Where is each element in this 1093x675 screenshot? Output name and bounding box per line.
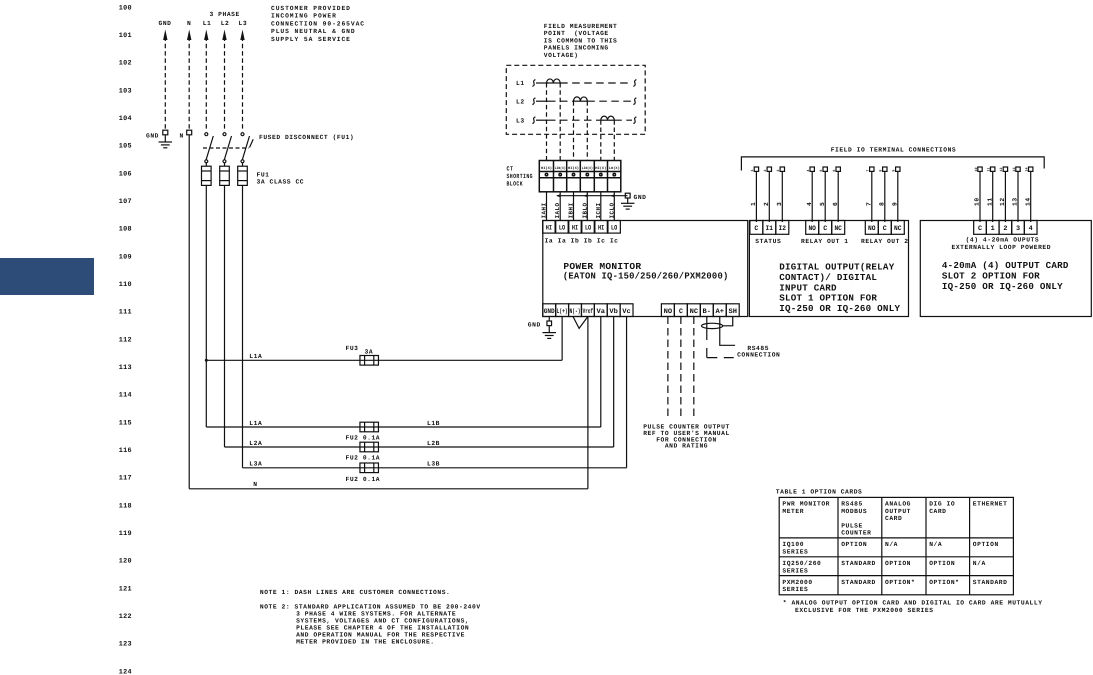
- node GND incoming: [159, 20, 172, 130]
- svg-text:3: 3: [1016, 225, 1020, 233]
- svg-text:5: 5: [819, 169, 824, 171]
- svg-text:I1: I1: [766, 225, 774, 233]
- svg-text:L1A: L1A: [249, 353, 262, 360]
- note customer provided incoming power: [271, 5, 365, 43]
- switch gang linkage (dashed): [203, 139, 253, 148]
- terminal N entry: [180, 130, 192, 139]
- label CT SHORTING BLOCK: [507, 166, 534, 188]
- svg-text:FU1: FU1: [257, 171, 270, 178]
- svg-text:3 PHASE 4 WIRE SYSTEMS. FOR AL: 3 PHASE 4 WIRE SYSTEMS. FOR ALTERNATE: [296, 611, 456, 618]
- terminal GND (CT common): [625, 193, 646, 203]
- svg-text:FUSED DISCONNECT (FU1): FUSED DISCONNECT (FU1): [259, 134, 354, 141]
- svg-text:110: 110: [119, 281, 132, 289]
- svg-text:L2A: L2A: [249, 440, 262, 447]
- svg-text:A+: A+: [716, 308, 725, 316]
- svg-text:SLOT 2 OPTION FOR: SLOT 2 OPTION FOR: [942, 271, 1040, 282]
- svg-text:OPTION: OPTION: [929, 560, 955, 567]
- wire L1 vertical run: [205, 185, 207, 427]
- svg-text:3A: 3A: [365, 348, 374, 355]
- RS485 twisted pair B- A+ stubs: [707, 317, 720, 330]
- svg-text:STATUS: STATUS: [755, 238, 781, 245]
- fuse FU1 pole C: [238, 166, 248, 185]
- note field measurement point: [544, 23, 618, 59]
- svg-text:L2: L2: [516, 98, 525, 105]
- svg-text:FU2 0.1A: FU2 0.1A: [346, 455, 381, 462]
- svg-text:TABLE 1 OPTION CARDS: TABLE 1 OPTION CARDS: [776, 488, 863, 495]
- svg-text:N/A: N/A: [973, 560, 986, 567]
- svg-text:119: 119: [119, 530, 132, 538]
- field IO terminals 1-14 with wires: [750, 167, 759, 222]
- svg-text:C: C: [754, 225, 758, 233]
- svg-text:3 PHASE: 3 PHASE: [210, 11, 240, 18]
- svg-text:3: 3: [776, 202, 783, 206]
- svg-text:FIELD MEASUREMENT: FIELD MEASUREMENT: [544, 23, 618, 30]
- node L3 incoming: [239, 20, 248, 131]
- svg-text:PANELS INCOMING: PANELS INCOMING: [544, 45, 609, 52]
- svg-text:ANALOG: ANALOG: [885, 501, 911, 508]
- svg-text:CT: CT: [507, 166, 514, 173]
- svg-text:FU2 0.1A: FU2 0.1A: [346, 435, 381, 442]
- 4-20mA terminals C 1 2 3 4: [974, 221, 1037, 235]
- svg-text:HI: HI: [546, 224, 552, 232]
- svg-text:104: 104: [119, 115, 132, 123]
- svg-text:EXTERNALLY LOOP POWERED: EXTERNALLY LOOP POWERED: [952, 244, 1052, 251]
- svg-text:122: 122: [119, 613, 132, 621]
- phase L2 primary conductor with CT: [516, 97, 636, 106]
- table footnote: [783, 600, 1043, 614]
- svg-text:SHORTING: SHORTING: [507, 173, 534, 180]
- svg-text:ICLO: ICLO: [608, 203, 615, 219]
- status input terminals C I1 I2: [750, 221, 789, 245]
- svg-text:BLOCK: BLOCK: [507, 180, 524, 187]
- svg-text:Ia: Ia: [545, 238, 554, 245]
- meter CT input terminals HI LO x3: [543, 221, 621, 234]
- svg-text:IQ-250 OR IQ-260 ONLY: IQ-250 OR IQ-260 ONLY: [942, 281, 1063, 292]
- svg-text:Vref: Vref: [583, 307, 594, 316]
- svg-text:10: 10: [974, 197, 981, 206]
- svg-text:IQ250/260: IQ250/260: [782, 560, 821, 567]
- svg-text:OPTION*: OPTION*: [885, 579, 915, 586]
- svg-text:11: 11: [986, 197, 993, 206]
- svg-text:FU3: FU3: [346, 345, 359, 352]
- svg-text:L3B: L3B: [427, 461, 440, 468]
- svg-text:SYSTEMS, VOLTAGES AND CT CONFI: SYSTEMS, VOLTAGES AND CT CONFIGURATIONS,: [296, 618, 469, 625]
- power monitor U1 outline: [543, 221, 748, 317]
- fuse FU2 0.1A (phase C): [346, 463, 381, 483]
- svg-text:120: 120: [119, 558, 132, 566]
- svg-text:4: 4: [1029, 225, 1033, 233]
- svg-text:POINT (VOLTAGE: POINT (VOLTAGE: [544, 30, 609, 37]
- note 2 standard application: [260, 604, 481, 646]
- meter power/voltage terminals GND L(+) N(-) Vref Va Vb Vc: [543, 304, 633, 317]
- svg-text:C: C: [823, 225, 827, 233]
- svg-text:L3A: L3A: [249, 461, 262, 468]
- svg-text:116: 116: [119, 447, 132, 455]
- svg-text:Ib: Ib: [584, 238, 593, 245]
- wire meter GND terminal drop: [548, 317, 550, 322]
- fuse FU1 pole A: [202, 166, 212, 185]
- node L2 incoming: [221, 20, 230, 131]
- svg-text:N(-): N(-): [570, 308, 581, 316]
- svg-text:HI(X): HI(X): [541, 166, 552, 171]
- svg-text:RS485: RS485: [841, 501, 863, 508]
- svg-text:METER: METER: [782, 508, 804, 515]
- svg-text:EXCLUSIVE FOR THE PXM2000 SERI: EXCLUSIVE FOR THE PXM2000 SERIES: [795, 607, 934, 614]
- svg-text:N: N: [180, 133, 184, 140]
- svg-text:NOTE 2: STANDARD APPLICATION A: NOTE 2: STANDARD APPLICATION ASSUMED TO …: [260, 604, 481, 611]
- svg-text:SUPPLY 5A SERVICE: SUPPLY 5A SERVICE: [271, 36, 351, 43]
- wire N vertical run: [188, 135, 190, 489]
- svg-text:N/A: N/A: [885, 541, 898, 548]
- svg-text:CARD: CARD: [929, 508, 946, 515]
- svg-text:C: C: [978, 225, 982, 233]
- wire L2A/L2B voltage sense: [225, 317, 614, 448]
- jumper N(-) to Vref: [573, 317, 588, 329]
- CT L3 secondary leads (dashed): [601, 120, 615, 160]
- svg-text:7: 7: [866, 169, 871, 171]
- svg-text:14: 14: [1024, 197, 1031, 206]
- svg-text:7: 7: [866, 202, 873, 206]
- wire L3A/L3B voltage sense: [243, 317, 627, 468]
- svg-text:FIELD IO TERMINAL CONNECTIONS: FIELD IO TERMINAL CONNECTIONS: [831, 146, 957, 153]
- label digital output card description: [779, 262, 900, 315]
- svg-text:IBHI: IBHI: [568, 203, 575, 219]
- svg-text:NO: NO: [808, 225, 816, 233]
- wires shorting block to meter CT terminals: [547, 192, 615, 221]
- fuse FU2 0.1A (phase B): [346, 442, 381, 461]
- svg-text:INCOMING POWER: INCOMING POWER: [271, 13, 337, 20]
- svg-text:DIG IO: DIG IO: [929, 501, 955, 508]
- svg-text:L(+): L(+): [557, 308, 568, 316]
- svg-text:OPTION: OPTION: [841, 541, 867, 548]
- svg-text:113: 113: [119, 364, 132, 372]
- svg-text:LO: LO: [585, 224, 591, 232]
- svg-text:RELAY OUT 2: RELAY OUT 2: [861, 238, 909, 245]
- wire L2 vertical run: [224, 185, 226, 447]
- wire L1A control power feed: [205, 317, 562, 362]
- svg-text:ICHI: ICHI: [595, 203, 602, 219]
- svg-text:Ic: Ic: [610, 238, 619, 245]
- shield loop ellipse: [702, 323, 723, 328]
- svg-text:6: 6: [832, 169, 837, 171]
- svg-text:12: 12: [999, 167, 1004, 171]
- svg-text:14: 14: [1025, 167, 1030, 171]
- svg-text:Va: Va: [597, 308, 606, 316]
- svg-text:HI(X): HI(X): [595, 166, 606, 171]
- left line-number column: [119, 4, 132, 675]
- svg-text:IQ-250 OR IQ-260 ONLY: IQ-250 OR IQ-260 ONLY: [779, 303, 900, 314]
- svg-text:IQ100: IQ100: [782, 541, 804, 548]
- svg-text:4: 4: [806, 169, 811, 171]
- svg-text:123: 123: [119, 641, 132, 649]
- svg-text:SERIES: SERIES: [782, 567, 808, 574]
- svg-text:3A CLASS CC: 3A CLASS CC: [257, 179, 305, 186]
- svg-text:NOTE 1: DASH LINES ARE CUSTOME: NOTE 1: DASH LINES ARE CUSTOMER CONNECTI…: [260, 589, 450, 596]
- digital I/O card U2 outline: [749, 221, 908, 317]
- svg-text:L1B: L1B: [427, 420, 440, 427]
- svg-text:121: 121: [119, 585, 132, 593]
- svg-text:SERIES: SERIES: [782, 548, 808, 555]
- svg-text:ETHERNET: ETHERNET: [973, 501, 1008, 508]
- svg-text:I2: I2: [779, 225, 787, 233]
- svg-text:L2B: L2B: [427, 440, 440, 447]
- svg-text:6: 6: [832, 202, 839, 206]
- svg-text:METER PROVIDED IN THE ENCLOSUR: METER PROVIDED IN THE ENCLOSURE.: [296, 639, 435, 646]
- svg-text:HI(X): HI(X): [568, 166, 579, 171]
- node N incoming: [187, 20, 191, 130]
- CT L1 secondary leads (dashed): [547, 83, 561, 161]
- fuse FU2 0.1A (phase A): [346, 422, 381, 441]
- svg-text:L1A: L1A: [249, 420, 262, 427]
- svg-text:3: 3: [776, 169, 781, 171]
- svg-text:1: 1: [750, 202, 757, 206]
- note pulse counter output: [643, 424, 730, 450]
- svg-text:IAHI: IAHI: [541, 203, 548, 219]
- svg-text:VOLTAGE): VOLTAGE): [544, 52, 579, 59]
- phase L1 primary conductor with CT: [516, 79, 636, 87]
- svg-text:L3: L3: [239, 20, 248, 27]
- wire L1A/L1B voltage sense: [206, 317, 600, 428]
- fused disconnect FU1 switch poles: [205, 133, 214, 167]
- svg-text:CUSTOMER PROVIDED: CUSTOMER PROVIDED: [271, 5, 351, 12]
- svg-text:(EATON IQ-150/250/260/PXM2000): (EATON IQ-150/250/260/PXM2000): [563, 270, 729, 281]
- svg-text:4: 4: [806, 202, 813, 206]
- svg-text:2: 2: [763, 202, 770, 206]
- svg-text:111: 111: [119, 309, 132, 317]
- svg-text:1: 1: [991, 225, 995, 233]
- svg-text:AND OPERATION MANUAL FOR THE R: AND OPERATION MANUAL FOR THE RESPECTIVE: [296, 632, 465, 639]
- svg-text:LO(X): LO(X): [609, 166, 620, 171]
- svg-text:109: 109: [119, 253, 132, 261]
- field measurement dashed boundary box: [506, 65, 645, 134]
- svg-text:NC: NC: [690, 308, 699, 316]
- svg-text:IS COMMON TO THIS: IS COMMON TO THIS: [544, 37, 618, 44]
- svg-text:HI: HI: [572, 224, 578, 232]
- svg-text:NO: NO: [868, 225, 876, 233]
- svg-text:L3: L3: [516, 117, 525, 124]
- svg-text:IALO: IALO: [554, 203, 561, 219]
- svg-text:L1: L1: [203, 20, 212, 27]
- label 4-20mA output card description: [942, 260, 1069, 292]
- svg-text:MODBUS: MODBUS: [841, 508, 867, 515]
- svg-text:5: 5: [819, 202, 826, 206]
- ground symbol (meter): [542, 333, 556, 339]
- svg-text:OPTION*: OPTION*: [929, 579, 959, 586]
- 4-20mA output card U3 outline: [920, 221, 1091, 317]
- label RS485 CONNECTION: [737, 345, 780, 358]
- svg-text:NC: NC: [834, 225, 842, 233]
- svg-text:PWR MONITOR: PWR MONITOR: [782, 501, 830, 508]
- svg-text:L1: L1: [516, 80, 525, 87]
- svg-text:PLUS NEUTRAL & GND: PLUS NEUTRAL & GND: [271, 28, 356, 35]
- svg-text:13: 13: [1012, 167, 1017, 171]
- label FU1 3A CLASS CC: [257, 171, 305, 185]
- svg-text:Ic: Ic: [597, 238, 606, 245]
- svg-text:CARD: CARD: [885, 515, 902, 522]
- svg-text:9: 9: [892, 202, 899, 206]
- svg-text:11: 11: [987, 167, 992, 171]
- wire N return to Vref: [189, 317, 588, 489]
- svg-text:115: 115: [119, 419, 132, 427]
- svg-text:114: 114: [119, 392, 132, 400]
- svg-text:N: N: [253, 481, 257, 488]
- svg-text:B-: B-: [703, 308, 712, 316]
- node L1 incoming: [203, 20, 212, 131]
- fuse FU3 3A: [346, 345, 379, 365]
- svg-text:N/A: N/A: [929, 541, 942, 548]
- svg-text:100: 100: [119, 4, 132, 12]
- svg-text:CONTACT)/ DIGITAL: CONTACT)/ DIGITAL: [779, 272, 877, 283]
- terminal GND (meter): [528, 321, 552, 333]
- wire L3 vertical run: [242, 185, 244, 467]
- svg-text:GND: GND: [146, 133, 159, 140]
- svg-text:OPTION: OPTION: [885, 560, 911, 567]
- svg-text:SLOT 1 OPTION FOR: SLOT 1 OPTION FOR: [779, 293, 877, 304]
- svg-text:DIGITAL OUTPUT(RELAY: DIGITAL OUTPUT(RELAY: [779, 262, 895, 273]
- svg-text:FU2 0.1A: FU2 0.1A: [346, 476, 381, 483]
- svg-text:IBLO: IBLO: [581, 203, 588, 219]
- wire B- to RS485 label (dashed): [707, 329, 734, 358]
- svg-text:STANDARD: STANDARD: [841, 560, 876, 567]
- svg-text:112: 112: [119, 336, 132, 344]
- svg-text:13: 13: [1012, 197, 1019, 206]
- svg-text:103: 103: [119, 87, 132, 95]
- wire A+ to RS485 label: [720, 329, 735, 345]
- svg-text:LIN(X): LIN(X): [555, 166, 566, 171]
- pulse counter output leads NO C NC (dashed): [668, 317, 694, 420]
- svg-text:Ia: Ia: [558, 238, 567, 245]
- svg-text:N: N: [187, 20, 191, 27]
- svg-text:10: 10: [974, 167, 979, 171]
- svg-text:117: 117: [119, 475, 132, 483]
- label (4) 4-20mA ouputs externally loop powered: [952, 236, 1052, 251]
- table cell texts: [782, 501, 1007, 593]
- svg-text:COUNTER: COUNTER: [841, 530, 871, 537]
- svg-text:8: 8: [879, 169, 884, 171]
- svg-text:2: 2: [763, 169, 768, 171]
- svg-text:4-20mA (4) OUTPUT CARD: 4-20mA (4) OUTPUT CARD: [942, 260, 1069, 271]
- svg-text:INPUT CARD: INPUT CARD: [779, 282, 837, 293]
- svg-text:STANDARD: STANDARD: [973, 579, 1008, 586]
- wire SH shield drain: [723, 317, 733, 326]
- svg-text:GND: GND: [528, 321, 541, 328]
- svg-text:106: 106: [119, 170, 132, 178]
- field IO bracket: [741, 157, 1044, 171]
- svg-text:LO: LO: [559, 224, 565, 232]
- svg-text:1: 1: [750, 169, 755, 171]
- svg-text:2: 2: [1003, 225, 1007, 233]
- table 1 option cards grid: [779, 497, 1013, 594]
- svg-text:NO: NO: [664, 308, 673, 316]
- CT common ground collector wire: [556, 194, 628, 197]
- svg-text:OPTION: OPTION: [973, 541, 999, 548]
- meter comm/pulse terminals NO C NC B- A+ SH: [661, 304, 739, 317]
- svg-text:AND RATING: AND RATING: [665, 443, 708, 450]
- svg-text:L2: L2: [221, 20, 230, 27]
- terminal GND entry: [146, 130, 168, 142]
- svg-text:GND: GND: [159, 20, 172, 27]
- svg-text:PULSE: PULSE: [841, 522, 863, 529]
- svg-text:SH: SH: [728, 308, 737, 316]
- phase L3 primary conductor with CT: [516, 116, 636, 124]
- label POWER MONITOR (EATON IQ-150/250/260/PXM2000): [563, 261, 729, 281]
- svg-text:9: 9: [892, 169, 897, 171]
- svg-text:GND: GND: [634, 194, 647, 201]
- CT L2 secondary leads (dashed): [574, 101, 588, 160]
- svg-text:C: C: [883, 225, 887, 233]
- svg-text:12: 12: [999, 197, 1006, 206]
- svg-text:(4) 4-20mA OUPUTS: (4) 4-20mA OUPUTS: [966, 236, 1040, 243]
- svg-text:C: C: [679, 308, 683, 316]
- svg-text:CONNECTION: CONNECTION: [737, 352, 780, 359]
- svg-text:105: 105: [119, 143, 132, 151]
- ground symbol (CT common): [621, 203, 635, 209]
- svg-text:8: 8: [879, 202, 886, 206]
- svg-text:Vc: Vc: [622, 308, 631, 316]
- CT shorting block: [539, 161, 621, 192]
- svg-text:GND: GND: [544, 308, 555, 316]
- net labels IAHI IALO IBHI IBLO ICHI ICLO: [541, 203, 616, 219]
- svg-text:NC: NC: [894, 225, 902, 233]
- svg-text:STANDARD: STANDARD: [841, 579, 876, 586]
- svg-text:OUTPUT: OUTPUT: [885, 508, 911, 515]
- svg-text:118: 118: [119, 502, 132, 510]
- svg-text:101: 101: [119, 32, 132, 40]
- svg-text:107: 107: [119, 198, 132, 206]
- svg-text:LIN(X): LIN(X): [582, 166, 593, 171]
- svg-text:LO: LO: [611, 224, 617, 232]
- fuse FU1 pole B: [220, 166, 230, 185]
- svg-text:102: 102: [119, 60, 132, 68]
- relay out 2 terminals NO C NC: [861, 221, 909, 245]
- blue sidebar tab: [0, 258, 94, 295]
- svg-text:CONNECTION 90-265VAC: CONNECTION 90-265VAC: [271, 20, 365, 27]
- svg-text:108: 108: [119, 226, 132, 234]
- svg-text:PLEASE SEE CHAPTER 4 OF THE IN: PLEASE SEE CHAPTER 4 OF THE INSTALLATION: [296, 625, 469, 632]
- svg-text:124: 124: [119, 668, 132, 675]
- svg-text:SERIES: SERIES: [782, 586, 808, 593]
- svg-text:HI: HI: [598, 224, 604, 232]
- svg-text:Ib: Ib: [571, 238, 580, 245]
- svg-text:RELAY OUT 1: RELAY OUT 1: [801, 238, 849, 245]
- svg-text:* ANALOG OUTPUT OPTION CARD AN: * ANALOG OUTPUT OPTION CARD AND DIGITAL …: [783, 600, 1043, 607]
- relay out 1 terminals NO C NC: [801, 221, 849, 245]
- svg-text:Vb: Vb: [609, 308, 618, 316]
- labels Ia Ia Ib Ib Ic Ic: [545, 238, 619, 245]
- ground symbol (incoming GND): [159, 142, 173, 148]
- svg-text:PXM2000: PXM2000: [782, 579, 812, 586]
